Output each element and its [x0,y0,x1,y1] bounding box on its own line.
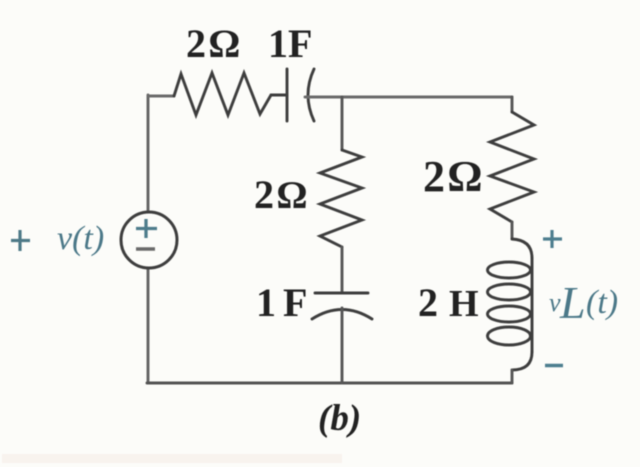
inductor L1 bottom hook [512,352,532,370]
voltage source V1 minus sign [136,247,155,250]
svg-text:2: 2 [423,152,445,201]
resistor R1 2ohm horizontal top [174,73,287,115]
capacitor C1 1F right curved plate [308,69,314,121]
wire: middle branch top vertical [341,97,344,150]
svg-text:L: L [559,277,586,328]
svg-text:Ω: Ω [209,21,240,66]
wire: right vertical below L1 to bottom [511,370,514,383]
capacitor C2 1F bottom curved plate [312,310,372,320]
svg-text:1: 1 [256,280,276,325]
svg-text:Ω: Ω [277,174,307,217]
inductor L1 loop 3 [488,306,531,322]
wire: right vertical from top corner [511,97,514,112]
wire: left vertical lower [147,268,150,383]
wire: top-left horizontal to R1 [148,95,174,98]
capacitor C1 1F left plate [286,69,289,121]
inductor L1 right spine [531,258,534,352]
node plus sign left of source [11,230,30,251]
wire: left vertical upper [147,95,150,212]
inductor L1 loop 2 [488,284,531,300]
svg-text:1F: 1F [268,21,312,66]
svg-text:(b): (b) [318,398,361,439]
svg-text:(t): (t) [586,284,618,321]
svg-text:F: F [283,280,307,325]
node minus sign below vL [545,364,563,368]
wire: middle vertical between R2 and C2 [341,247,344,293]
wire: top horizontal from C1 to right corner [305,96,512,99]
node plus sign above vL [543,230,562,248]
wire: bottom horizontal [147,382,512,385]
wire: short vertical between R3 and L1 [511,222,514,239]
svg-text:v(t): v(t) [57,220,104,257]
svg-text:Ω: Ω [448,152,482,201]
pink smudge artifact bottom-left [2,454,342,463]
svg-text:H: H [449,283,479,325]
svg-text:2: 2 [186,21,206,66]
wire: middle vertical below C2 to bottom [341,308,344,383]
inductor L1 loop 4 [488,327,531,345]
voltage source V1 plus sign [136,219,157,238]
inductor L1 loop 1 [488,262,531,278]
capacitor C2 1F top plate [315,292,368,295]
resistor R3 2ohm right vertical [490,112,534,222]
resistor R2 2ohm middle vertical [320,150,362,247]
svg-text:2: 2 [254,172,274,217]
inductor L1 2H top hook [512,239,532,258]
label vL(t) inductor voltage [549,277,618,328]
svg-text:2: 2 [418,280,438,325]
voltage source V1 circle [121,212,177,268]
